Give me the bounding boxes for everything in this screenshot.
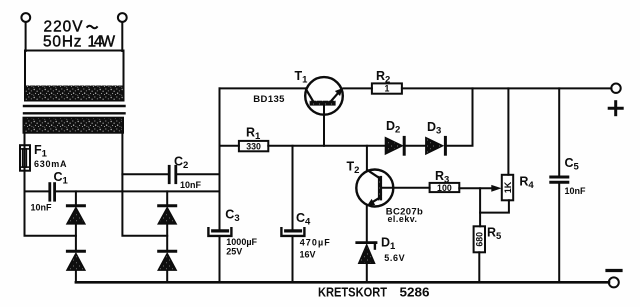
capacitor C3	[208, 228, 231, 236]
svg-text:100: 100	[437, 183, 452, 193]
transformer TR1 secondary	[24, 118, 124, 133]
output + rail	[402, 87, 612, 89]
wire T2 collector up to rail	[366, 146, 368, 170]
wire fuse down to node A (C1 rail) and to AC mid left	[25, 171, 76, 236]
bridge diode top-right	[158, 206, 176, 224]
wire left terminal to transformer	[25, 22, 27, 51]
svg-text:16V: 16V	[300, 250, 316, 260]
plus sign	[609, 102, 622, 115]
svg-text:10nF: 10nF	[31, 203, 53, 213]
svg-text:50Hz: 50Hz	[43, 33, 82, 50]
capacitor C2	[122, 166, 219, 182]
svg-text:470µF: 470µF	[300, 237, 331, 247]
potentiometer R4	[502, 175, 513, 201]
bridge rectifier column 1 wires	[75, 191, 77, 204]
transformer core	[24, 105, 125, 107]
output terminal minus	[609, 277, 619, 287]
input terminal right	[118, 13, 127, 22]
top rail (collector rail)	[220, 87, 306, 89]
diode D3	[426, 137, 446, 154]
wire D3 cathode up to + rail	[447, 88, 473, 145]
output terminal +	[611, 84, 620, 93]
capacitor C5	[551, 88, 568, 282]
capacitor C4	[281, 228, 304, 236]
bridge diode bottom-right	[158, 251, 176, 270]
resistor R3	[430, 183, 460, 192]
wire C4 branch vertical x=292.5	[292, 146, 294, 230]
wire R1 to D2	[268, 145, 385, 147]
input terminal left	[21, 13, 30, 22]
svg-text:10nF: 10nF	[565, 186, 587, 196]
wire T1 emitter to R2	[343, 87, 372, 89]
wire D2 to D3	[406, 145, 426, 147]
wire T2 emitter down to D1	[366, 206, 368, 242]
svg-text:el.ekv.: el.ekv.	[388, 214, 418, 224]
resistor R5	[474, 226, 485, 252]
svg-text:1: 1	[384, 84, 389, 94]
wire R4 bottom to wiper bus	[480, 200, 509, 212]
svg-text:25V: 25V	[226, 247, 242, 257]
svg-text:10nF: 10nF	[180, 180, 202, 190]
wire R4 top to + rail	[507, 88, 509, 174]
svg-text:5.6V: 5.6V	[384, 253, 405, 263]
wire right terminal to transformer	[121, 22, 123, 51]
fuse F1	[20, 145, 30, 171]
zener diode D1	[357, 243, 376, 264]
svg-text:BD135: BD135	[253, 94, 285, 105]
wire junction down to R5	[479, 188, 481, 226]
bridge diode top-left	[67, 206, 85, 224]
base rail y=145.8 with R1	[220, 145, 239, 147]
svg-text:KRETSKORT: KRETSKORT	[318, 285, 387, 300]
transformer TR1 primary	[25, 51, 124, 101]
wire secondary right down and to AC mid right	[122, 133, 167, 236]
minus sign	[607, 269, 621, 272]
svg-text:330: 330	[246, 141, 261, 151]
node B vertical bus x=219.5	[219, 88, 221, 229]
diode D2	[385, 137, 404, 154]
label 220V 50Hz 14W	[43, 19, 115, 51]
wire R3 to wiper junction	[459, 187, 493, 189]
transistor T2	[356, 170, 393, 207]
svg-text:1K: 1K	[503, 181, 513, 193]
svg-text:5286: 5286	[400, 285, 430, 300]
svg-text:680: 680	[474, 232, 484, 247]
resistor R2	[372, 83, 402, 93]
bridge diode bottom-left	[67, 251, 85, 270]
wire R5 to bottom rail	[478, 252, 480, 282]
svg-text:14W: 14W	[88, 33, 116, 50]
wire secondary left down to fuse	[24, 133, 26, 146]
wire T2 base to R3	[382, 187, 430, 189]
resistor R1	[239, 141, 268, 151]
transistor T1	[305, 77, 343, 146]
bridge rectifier column 2 wires	[166, 191, 168, 204]
wire D1 to bottom rail	[366, 263, 368, 282]
wiper arrow into R4	[491, 185, 501, 192]
bottom rail (minus)	[76, 281, 609, 284]
svg-text:630mA: 630mA	[34, 159, 67, 169]
capacitor C1	[25, 184, 220, 201]
